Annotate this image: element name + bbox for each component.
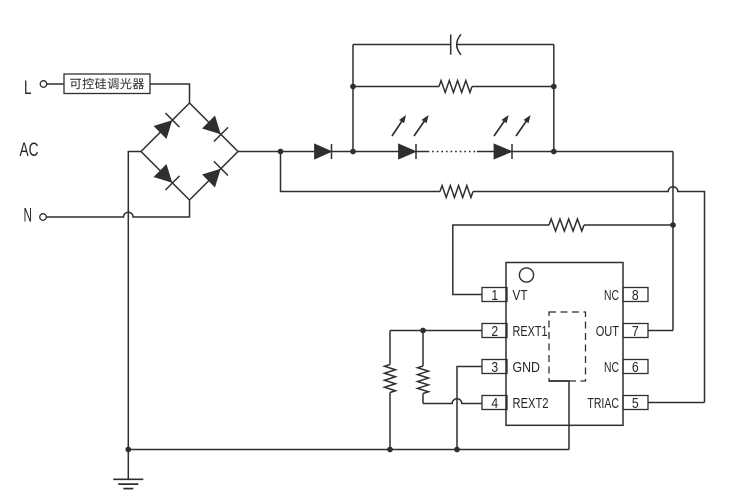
resistor R3 <box>549 219 584 231</box>
wire TRIAC pin5 lead <box>649 402 705 404</box>
svg-text:3: 3 <box>491 360 498 376</box>
terminal L <box>40 81 47 88</box>
IC pin1 marker <box>519 268 533 282</box>
node <box>670 222 676 228</box>
wire <box>477 151 494 153</box>
wire with hop <box>473 187 705 403</box>
bridge diode top-right <box>203 116 220 133</box>
node <box>454 447 460 453</box>
wire <box>512 151 673 153</box>
svg-text:2: 2 <box>491 324 498 340</box>
wire <box>281 152 441 192</box>
wire ground rail <box>128 449 569 451</box>
wire <box>453 225 549 295</box>
bridge diode top-left <box>154 121 171 138</box>
wire OUT column <box>672 152 674 331</box>
pin 8 box <box>623 288 648 302</box>
node <box>551 149 557 155</box>
resistor R5 <box>422 331 424 367</box>
wire <box>352 45 354 152</box>
node <box>420 328 426 334</box>
wire <box>47 83 64 85</box>
svg-text:5: 5 <box>632 396 639 412</box>
wire OUT pin7 lead <box>649 330 674 332</box>
node <box>551 84 557 90</box>
node <box>278 149 284 155</box>
diode D1 <box>315 144 332 159</box>
LED light arrows <box>494 119 506 136</box>
svg-text:4: 4 <box>491 396 498 412</box>
dimmer box U-dim 可控硅调光器 <box>64 74 150 94</box>
bridge diode bottom-right <box>203 169 220 186</box>
svg-text:7: 7 <box>632 324 639 340</box>
svg-text:VT: VT <box>513 288 528 304</box>
svg-text:OUT: OUT <box>596 324 619 340</box>
wire <box>150 84 190 103</box>
pin 1 box <box>482 288 507 302</box>
pin 6 box <box>623 360 648 374</box>
node <box>350 149 356 155</box>
svg-text:8: 8 <box>632 288 639 304</box>
wire <box>353 44 451 46</box>
IC internal triac dashed block <box>549 312 586 381</box>
svg-text:L: L <box>24 78 32 99</box>
svg-text:6: 6 <box>632 360 639 376</box>
wire <box>553 45 555 152</box>
pin 2 box <box>482 324 507 338</box>
pin 3 box <box>482 360 507 374</box>
wire REXT2 pin4 lead with hop <box>423 399 482 404</box>
svg-text:TRIAC: TRIAC <box>587 396 619 412</box>
terminal N <box>40 214 47 221</box>
svg-text:N: N <box>24 206 33 227</box>
node <box>350 84 356 90</box>
bridge rectifier BR1 diamond <box>141 103 238 200</box>
resistor R4 <box>389 331 391 365</box>
wire N with hop over ground branch <box>46 200 189 217</box>
wire <box>332 151 399 153</box>
LED D3 <box>494 144 512 159</box>
wire GND pin3 lead <box>457 367 482 450</box>
svg-text:REXT1: REXT1 <box>513 324 548 340</box>
svg-text:NC: NC <box>604 288 619 304</box>
wire <box>238 151 315 153</box>
node <box>387 447 393 453</box>
svg-text:AC: AC <box>20 140 39 161</box>
ground <box>127 450 129 480</box>
wire <box>416 151 428 153</box>
wire <box>584 224 673 226</box>
capacitor C1 <box>450 35 452 55</box>
wire REXT1 pin2 lead <box>390 330 482 332</box>
pin 4 box <box>482 396 507 410</box>
resistor R1 <box>353 86 439 88</box>
pin 7 box <box>623 324 648 338</box>
LED light arrows <box>392 119 403 136</box>
svg-text:1: 1 <box>491 288 498 304</box>
svg-text:NC: NC <box>604 360 619 376</box>
bridge diode bottom-left <box>154 165 171 182</box>
LED D2 <box>399 144 417 159</box>
svg-text:GND: GND <box>513 360 541 376</box>
wire IC internal return <box>549 381 569 450</box>
wire bridge minus to ground rail <box>128 152 141 450</box>
wire <box>457 44 554 46</box>
node <box>125 447 131 453</box>
IC U1 body <box>506 263 623 426</box>
resistor R2 <box>440 186 473 198</box>
svg-text:REXT2: REXT2 <box>513 396 549 412</box>
pin 5 box <box>623 396 648 410</box>
wire dotted continuation <box>428 151 478 153</box>
